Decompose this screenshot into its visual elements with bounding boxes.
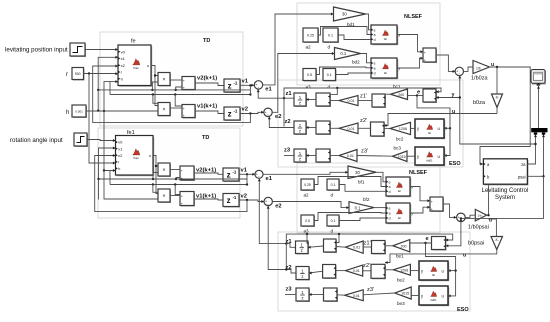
junction v2 ch2	[246, 199, 248, 201]
svg-text:bf2: bf2	[363, 197, 370, 202]
junction u fe1	[155, 165, 157, 167]
gain b0psai (down)	[491, 237, 503, 250]
svg-text:+: +	[181, 202, 183, 206]
svg-text:fal: fal	[428, 131, 431, 135]
wire fe u to product 1	[151, 66, 158, 76]
svg-text:d: d	[374, 38, 376, 42]
wire bd1 to fal e	[366, 14, 372, 30]
svg-text:1208: 1208	[399, 127, 407, 131]
svg-text:+: +	[183, 86, 185, 90]
gain bc3 =1015	[393, 151, 408, 162]
constant d2 =0.1	[323, 69, 337, 82]
gain bf1 =30	[348, 166, 376, 179]
svg-text:0.001: 0.001	[75, 110, 83, 114]
svg-text:z: z	[228, 82, 232, 91]
junction fb tap	[152, 178, 154, 180]
wire mid line rise	[109, 82, 111, 95]
svg-text:0.01: 0.01	[347, 154, 354, 158]
unit delay 2	[224, 107, 241, 121]
svg-text:a3: a3	[306, 85, 312, 90]
svg-text:a2: a2	[306, 45, 312, 50]
wire fal01 y out to be3	[411, 295, 419, 297]
svg-text:1208: 1208	[400, 268, 408, 272]
svg-text:+: +	[431, 207, 433, 211]
sum block z1 update ch2	[324, 239, 338, 253]
wire z3' be3 to gain	[363, 293, 395, 295]
svg-text:fal: fal	[398, 189, 401, 193]
junction mid tap2	[174, 93, 176, 95]
wire sum to delay 1	[195, 83, 224, 86]
wire fal y out to bc2	[411, 127, 416, 129]
constant d ch2	[327, 179, 340, 191]
wire e to fal row2 ch2	[448, 270, 456, 272]
wire sum to z3 block	[309, 294, 324, 296]
wire fal1 y to sum ch2	[410, 187, 430, 201]
junction u	[154, 74, 156, 76]
wire v1 feedback to fe x1	[98, 57, 250, 90]
junction r branch	[88, 72, 90, 74]
gain h row3 ch2	[345, 290, 364, 301]
svg-text:z3: z3	[286, 287, 293, 293]
svg-text:u: u	[147, 64, 149, 68]
junction v1 fb tap1	[151, 89, 153, 91]
svg-text:z1': z1'	[364, 241, 371, 247]
wire junction link	[97, 90, 99, 111]
wire be1 to sum z1p	[385, 245, 393, 247]
svg-text:d: d	[328, 45, 331, 50]
svg-text:-K-: -K-	[495, 238, 499, 242]
wire h to fe h port	[104, 82, 118, 111]
svg-text:e: e	[374, 28, 376, 32]
svg-text:×: ×	[162, 107, 165, 113]
wire gain to sum	[337, 294, 345, 296]
svg-text:a2: a2	[304, 193, 310, 198]
svg-text:z2: z2	[286, 265, 292, 271]
svg-text:1015: 1015	[398, 155, 406, 159]
svg-text:fal01: fal01	[430, 298, 437, 302]
svg-text:+: +	[183, 79, 185, 83]
wire z2p to gain 0.01	[358, 127, 371, 129]
svg-text:1/b0psai: 1/b0psai	[468, 225, 489, 231]
svg-text:fal: fal	[398, 216, 401, 220]
sum circle e1 ch2	[255, 170, 263, 179]
sum block z2p ch1	[371, 122, 386, 137]
wire e down to fal01 ch2	[426, 243, 456, 296]
sum block v1 update	[182, 105, 196, 119]
gain h row1 ch2	[345, 241, 363, 253]
junction psai to circle bottom	[460, 217, 462, 219]
constant d2 ch2	[327, 215, 340, 227]
svg-text:b0psai: b0psai	[468, 240, 484, 246]
wire v1 to sum e1 ch2	[239, 173, 255, 175]
svg-text:u: u	[463, 253, 466, 259]
svg-text:v2: v2	[241, 194, 247, 200]
wire za feedback to circle and e sum	[460, 76, 535, 144]
svg-text:ESO: ESO	[449, 161, 461, 167]
wire z1 to e1 circle	[258, 90, 294, 99]
svg-text:z: z	[301, 248, 303, 253]
svg-text:e1: e1	[265, 87, 272, 93]
wire b0psai out into ESO2	[385, 250, 497, 263]
wire u into b0za gain	[496, 67, 498, 94]
svg-text:0.1: 0.1	[340, 51, 346, 56]
wire sum to delay 4	[194, 199, 223, 200]
wire sum to z2 block	[309, 271, 323, 273]
svg-text:-1: -1	[232, 195, 236, 200]
junction e branch	[416, 94, 418, 96]
junction mid right	[249, 93, 251, 95]
wire h to product4 ch2	[104, 171, 158, 200]
wire z2p to gain	[363, 270, 371, 272]
function block fal 1	[371, 25, 400, 45]
wire tap to product3	[153, 173, 158, 180]
svg-text:za: za	[521, 162, 526, 167]
wire u into b0psai gain	[489, 219, 497, 237]
gain bd1 =30	[334, 7, 366, 21]
sum block e ch1 (z1-y)	[423, 89, 437, 103]
svg-text:e: e	[389, 180, 391, 184]
svg-text:200: 200	[398, 93, 404, 97]
svg-text:fhan: fhan	[133, 66, 139, 70]
svg-text:z3': z3'	[361, 149, 368, 155]
svg-text:v2(k+1): v2(k+1)	[197, 76, 217, 82]
svg-text:0.1: 0.1	[355, 205, 361, 210]
sum block z2 update ch2	[323, 265, 337, 280]
gain h row2 ch1 =0.01	[339, 123, 358, 134]
svg-text:be1: be1	[396, 254, 404, 259]
junction e to fal row2 ch2	[454, 269, 456, 271]
state block z3 ch2	[296, 288, 310, 302]
wire product3 to sum	[170, 169, 180, 171]
sum block z2p ch2	[371, 264, 386, 279]
sum block z3 update ch2	[324, 288, 339, 302]
svg-text:0.1: 0.1	[327, 73, 332, 77]
svg-text:bf1: bf1	[358, 180, 365, 185]
svg-text:0.5: 0.5	[305, 219, 310, 223]
svg-text:fal: fal	[384, 37, 387, 41]
svg-text:-1: -1	[232, 170, 236, 175]
svg-text:System: System	[495, 195, 515, 201]
gain h row3 ch1 =0.01	[339, 150, 357, 162]
svg-text:y: y	[398, 67, 400, 71]
svg-text:NLSEF: NLSEF	[404, 14, 423, 20]
wire bf1 to fal e	[376, 172, 386, 182]
gain be2 =1208	[393, 264, 410, 275]
junction z1 top ch2 b	[338, 233, 340, 235]
svg-text:30: 30	[342, 12, 347, 17]
svg-text:y: y	[411, 185, 413, 189]
wire bd2 to fal e	[361, 54, 372, 63]
state block z2 ch1	[294, 121, 307, 135]
constant r =900	[72, 68, 85, 81]
sum circle u0-z ch2	[457, 213, 466, 222]
wire tap to sum2 upper input	[175, 95, 182, 107]
wire a3 to fal a	[314, 213, 386, 221]
wire tap to product1 lower input	[152, 82, 158, 90]
junction u to b0za	[496, 66, 498, 68]
sum block v2 update	[182, 77, 196, 91]
scope block	[531, 70, 546, 86]
wire fal01 y out to bc3	[407, 155, 415, 157]
wire u0 to sum circle	[436, 55, 455, 71]
wire e1 to gain bf1	[263, 14, 334, 85]
wire u b0za into sum z2p	[384, 114, 497, 126]
wire z1 to e1 circle ch2	[259, 179, 295, 248]
junction z1 top ch2 a	[306, 233, 308, 235]
svg-text:×: ×	[162, 194, 165, 200]
wire y za to e sum	[436, 97, 460, 99]
svg-text:d: d	[328, 85, 331, 90]
wire v1 feedback to fe1 x1	[99, 148, 248, 179]
svg-text:e2: e2	[275, 114, 281, 120]
sum block v2 update ch2	[180, 166, 195, 181]
svg-text:1/b: 1/b	[476, 66, 481, 70]
wire product4 to sum	[170, 195, 180, 197]
wire z3' bc3 to gain	[357, 155, 393, 158]
svg-text:z1: z1	[286, 91, 293, 97]
junction z1 top wire	[336, 87, 338, 89]
wire bc1 to sum z1p	[385, 93, 391, 95]
svg-text:30: 30	[355, 170, 360, 175]
junction mid tap1 ch2	[152, 183, 154, 185]
wire v1 link down	[249, 90, 251, 95]
wire z3 out stub ch2	[285, 294, 296, 296]
svg-text:z3': z3'	[367, 287, 374, 293]
svg-text:fhan: fhan	[133, 156, 139, 160]
svg-text:z2: z2	[285, 119, 291, 125]
svg-text:1/b0za: 1/b0za	[471, 76, 488, 82]
junction z2 ch2	[285, 268, 287, 270]
wire v2 to sum e2	[240, 112, 264, 113]
svg-text:y: y	[411, 212, 413, 216]
wire fal2 y to sum	[397, 58, 423, 68]
constant a3 =0.5	[303, 69, 317, 82]
function block fal row2 ch1	[415, 119, 445, 139]
wire tap to product4 upper	[153, 185, 158, 193]
wire d to fal d	[336, 73, 372, 75]
sum block u0 ch1	[423, 48, 437, 63]
junction e branch ch2	[424, 242, 426, 244]
junction v1 fb tap2	[175, 89, 177, 91]
svg-text:0.1: 0.1	[331, 183, 336, 187]
mux block	[531, 128, 547, 135]
function block fal 1 ch2	[386, 177, 413, 197]
sum circle e2 ch2	[264, 197, 272, 206]
svg-text:z1': z1'	[360, 94, 367, 100]
product block 4	[158, 189, 171, 203]
svg-text:u: u	[452, 109, 455, 115]
wire e to fal row2 input	[444, 127, 450, 129]
sum block z1p ch2	[372, 241, 387, 255]
svg-text:psai: psai	[518, 175, 526, 180]
svg-text:d: d	[389, 217, 391, 221]
svg-text:0.5: 0.5	[307, 73, 312, 77]
subsystem box ESO 2	[278, 232, 470, 311]
wire gain to sum	[336, 246, 345, 249]
subsystem box TD 2	[98, 128, 240, 218]
state block z3 ch1	[294, 149, 307, 163]
wire d to fal d	[338, 35, 371, 40]
wire gain to sum	[336, 270, 346, 272]
svg-text:z3: z3	[284, 148, 291, 154]
gain bf2 =0.1	[349, 202, 374, 214]
svg-text:0.01: 0.01	[347, 99, 354, 103]
wire gain to sum	[330, 100, 339, 102]
svg-text:d: d	[389, 190, 391, 194]
wire d to fal d	[339, 185, 386, 192]
junction v1 fb left	[97, 89, 99, 91]
svg-text:a: a	[374, 67, 376, 71]
wire z2 to e2 circle ch2	[268, 206, 296, 273]
junction v1 ch2	[246, 173, 248, 175]
gain be3 =1015	[395, 287, 412, 299]
svg-text:1/b: 1/b	[478, 214, 483, 218]
junction h ch2	[103, 169, 105, 171]
svg-text:be3: be3	[397, 301, 405, 306]
wire fe u to product 2 branch	[155, 76, 158, 106]
wire sum to 1/b0za gain	[464, 67, 474, 71]
constant a2 =0.25	[303, 28, 319, 43]
wire z1 to e sum top input	[284, 88, 441, 127]
function block fe1 fhan	[116, 136, 155, 177]
svg-text:e1: e1	[266, 176, 273, 182]
constant d =0.1	[323, 28, 339, 43]
subsystem box NLSEF 1	[297, 3, 440, 85]
svg-text:z: z	[228, 110, 232, 119]
wire e to bc1 gain	[408, 95, 424, 97]
svg-text:z2': z2'	[360, 118, 367, 124]
sum block z2 update ch1	[316, 121, 331, 135]
svg-text:z: z	[299, 101, 301, 106]
svg-text:0.25: 0.25	[304, 183, 311, 187]
wire a3 to fal a	[316, 67, 371, 75]
subsystem box TD 1	[100, 32, 243, 126]
junction z1	[283, 97, 285, 99]
state block z1 ch1	[294, 93, 307, 107]
svg-text:900: 900	[75, 72, 81, 76]
junction za feedback	[534, 143, 536, 145]
wire z3 out stub	[284, 155, 294, 157]
wire z1 tap down a	[307, 234, 308, 243]
svg-text:TD: TD	[202, 135, 209, 141]
wire sum to z1 block	[308, 246, 324, 247]
sum block z1p ch1	[372, 94, 386, 108]
svg-text:NLSEF: NLSEF	[409, 170, 428, 176]
gain bc1 =200	[391, 89, 408, 100]
wire z2 to e2 circle	[269, 117, 294, 128]
plant block Levitating Control System	[483, 159, 528, 186]
sum circle e2 ch1	[264, 108, 272, 117]
gain 1/b0psai	[475, 209, 486, 221]
junction fb tap	[175, 178, 177, 180]
wire v2 feedback to fe1 x2	[95, 156, 247, 212]
gain be1 =200	[393, 240, 410, 252]
svg-text:z: z	[299, 157, 301, 162]
svg-text:v2: v2	[242, 107, 248, 113]
wire e1 to gain bf1 ch2	[263, 172, 348, 174]
sum block v1 update ch2	[180, 192, 195, 207]
wire z1p to gain 0.01	[358, 100, 372, 102]
wire gain to sum	[330, 155, 339, 157]
wire mid line rise ch2	[109, 171, 111, 185]
wire junction link ch2	[98, 179, 100, 200]
svg-text:z: z	[301, 296, 303, 301]
wire h to fe1 h port	[104, 111, 116, 171]
sum circle e1 ch1	[254, 81, 262, 90]
svg-text:rotation angle input: rotation angle input	[10, 137, 63, 144]
svg-text:y: y	[452, 92, 455, 98]
function block fal row2 ch2	[419, 261, 449, 281]
step input rotation angle	[74, 133, 88, 147]
wire psai into e sum ch2	[446, 222, 461, 246]
gain 1/b0za	[473, 61, 490, 74]
wire z1 tap to sum input	[336, 234, 339, 242]
svg-text:bc2: bc2	[396, 137, 404, 142]
svg-text:0.01: 0.01	[347, 127, 354, 131]
sum block u0 ch2	[430, 197, 444, 212]
svg-text:+: +	[181, 194, 183, 198]
wire bc2 to sum z2p	[384, 127, 390, 129]
state block z2 ch2	[296, 267, 310, 281]
wire sum to z3 block	[306, 155, 316, 157]
svg-text:ESO: ESO	[457, 307, 469, 313]
svg-text:0.01: 0.01	[353, 294, 360, 298]
wire mux to scope	[538, 86, 540, 128]
function block fal01 ch1	[415, 147, 445, 166]
wire u to plant input b	[486, 176, 489, 215]
wire tap to product2 upper input	[153, 95, 158, 104]
unit delay 4	[223, 194, 240, 208]
junction v1 fb left ch2	[97, 178, 99, 180]
function block fal01 ch2	[419, 286, 449, 306]
junction h branch	[103, 110, 105, 112]
svg-text:d: d	[331, 229, 334, 234]
wire e down to fal01 input	[417, 96, 450, 156]
svg-text:h: h	[66, 110, 69, 116]
svg-text:+: +	[431, 200, 433, 204]
svg-text:-1: -1	[233, 81, 237, 86]
unit delay 1	[224, 79, 241, 93]
svg-text:fe: fe	[131, 39, 136, 45]
wire fe1 u to product 3	[153, 156, 158, 167]
svg-text:b0za: b0za	[473, 100, 486, 106]
svg-text:bc3: bc3	[394, 146, 402, 151]
svg-text:0.01: 0.01	[353, 269, 360, 273]
svg-text:z: z	[301, 274, 303, 279]
wire e2 to gain bf2	[272, 54, 334, 113]
svg-text:u: u	[149, 154, 151, 158]
junction z1 ch2	[285, 242, 287, 244]
wire tap to sum upper	[175, 185, 180, 195]
wire sum to 1/b0psai	[465, 215, 475, 217]
svg-text:e: e	[374, 62, 376, 66]
wire rotation input to fe1 v0	[87, 140, 116, 141]
svg-text:v2(k+1): v2(k+1)	[196, 168, 216, 174]
svg-text:+: +	[183, 107, 185, 111]
wire v2 to sum e2 ch2	[239, 200, 264, 202]
svg-text:z2': z2'	[363, 263, 370, 269]
junction mid tap2 ch2	[174, 183, 176, 185]
function block fal 2	[371, 58, 400, 79]
product block 1 (u*h)	[158, 73, 171, 87]
wire z1p to gain	[363, 246, 371, 248]
junction mid right ch2	[246, 183, 248, 185]
svg-text:+: +	[424, 51, 426, 55]
wire bf2 to fal e	[374, 207, 386, 209]
junction e to fal row2	[449, 127, 451, 129]
unit delay 3	[223, 168, 240, 182]
svg-text:fal01: fal01	[426, 158, 433, 162]
